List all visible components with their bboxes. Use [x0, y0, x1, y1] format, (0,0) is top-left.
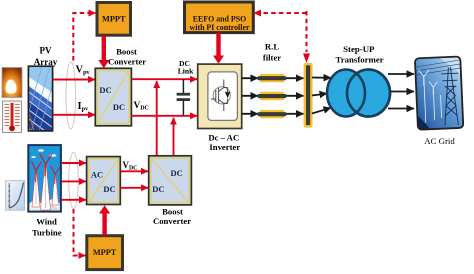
sun image — [2, 68, 22, 98]
svg-text:VDC: VDC — [134, 101, 149, 111]
svg-text:DC: DC — [113, 102, 125, 112]
svg-text:R.L: R.L — [265, 42, 279, 52]
label DC Link — [178, 59, 194, 76]
svg-text:with PI controller: with PI controller — [190, 23, 250, 32]
svg-text:DC: DC — [152, 184, 164, 194]
transformer T1 (two overlapping circles) — [327, 70, 390, 117]
wire Ipv (PV panel to boost converter) — [53, 114, 96, 116]
boost converter block (PV) DC-DC — [95, 68, 131, 126]
EEFO and PSO with PI controller block — [185, 2, 254, 33]
wire: AC-DC to wind boost (upper) — [121, 170, 149, 172]
svg-text:Turbine: Turbine — [32, 228, 62, 238]
wire: wind turbine phase a — [61, 162, 86, 164]
svg-text:AC: AC — [91, 170, 103, 180]
wire: transformer to grid phase A — [388, 73, 414, 75]
DC-AC inverter block — [198, 64, 242, 128]
svg-text:DC: DC — [99, 85, 111, 95]
svg-text:Boost: Boost — [162, 206, 183, 216]
wire: bus to transformer phase B — [312, 94, 327, 96]
wire DC+ rail (boost to inverter) — [131, 78, 197, 80]
svg-text:VDC: VDC — [123, 160, 138, 171]
svg-text:Link: Link — [178, 67, 194, 76]
capacitor: DC link — [177, 79, 191, 116]
dashed wire: wind ellipse to MPPT (wind) — [74, 209, 86, 256]
ground — [27, 199, 62, 212]
label PV Array — [34, 46, 58, 67]
turbine 1 (left) — [32, 171, 40, 207]
svg-text:Converter: Converter — [153, 216, 191, 226]
svg-text:Boost: Boost — [116, 47, 137, 57]
AC grid image — [415, 56, 464, 130]
wire Vpv (PV panel to boost converter) — [53, 79, 96, 81]
wire: inverter phase B to bus — [242, 95, 304, 97]
dashed feedback wire: AC bus to EEFO block — [254, 11, 307, 52]
svg-text:Dc – AC: Dc – AC — [208, 132, 239, 142]
node: wind measurement ellipse — [69, 153, 79, 209]
wire: bus to transformer phase C — [312, 108, 331, 114]
svg-text:Wind: Wind — [36, 217, 57, 227]
label Boost Converter (PV) — [108, 47, 146, 67]
MPPT block (PV) — [97, 3, 131, 36]
svg-text:MPPT: MPPT — [93, 248, 117, 257]
turbine 3 (right) — [52, 174, 59, 205]
IGBT symbol U1 — [211, 80, 230, 112]
svg-text:filter: filter — [263, 52, 281, 62]
label Boost Converter (wind) — [153, 206, 191, 226]
svg-text:Inverter: Inverter — [209, 142, 240, 152]
wire: transformer to grid phase B — [390, 91, 414, 93]
wire: wind turbine phase c — [61, 199, 86, 201]
svg-text:Vpv: Vpv — [76, 65, 91, 77]
turbine 2 (middle tall) — [41, 164, 51, 210]
boost converter block (wind) DC-DC — [149, 156, 192, 205]
inductor L3 (R.L filter) — [258, 110, 287, 118]
thick arrow: MPPT (wind) to AC-DC converter — [99, 205, 110, 236]
node: PV measurement ellipse — [66, 62, 76, 129]
label Dc-AC Inverter — [208, 132, 240, 152]
AC-DC converter block (wind) — [87, 157, 121, 205]
thick arrow: MPPT to boost converter (PV) — [98, 36, 109, 69]
svg-text:EEFO and PSO: EEFO and PSO — [193, 14, 247, 23]
wind power curve image — [6, 181, 25, 211]
wire: inverter phase A to bus — [242, 77, 304, 79]
wire: wind turbine phase b — [61, 180, 86, 182]
wind turbines in grid image — [418, 69, 441, 123]
MPPT block (wind) — [87, 236, 123, 270]
svg-text:Array: Array — [34, 57, 58, 67]
thermometer image — [3, 101, 22, 133]
svg-text:MPPT: MPPT — [102, 14, 126, 23]
svg-text:AC Grid: AC Grid — [424, 136, 455, 146]
svg-text:DC: DC — [103, 184, 115, 194]
svg-text:Converter: Converter — [108, 57, 146, 67]
svg-text:PV: PV — [40, 46, 52, 56]
arrowhead down onto bus — [303, 54, 310, 63]
label R.L filter — [263, 42, 281, 63]
wire: transformer to grid phase C — [388, 108, 414, 110]
wire: wind boost output to DC- rail — [173, 118, 175, 157]
AC bus bar — [304, 63, 313, 128]
wind turbine image — [27, 145, 62, 212]
label Step-UP Transformer — [335, 44, 383, 65]
svg-text:DC: DC — [170, 168, 182, 178]
svg-text:Transformer: Transformer — [335, 55, 383, 65]
wire DC- rail (boost to inverter) — [131, 115, 197, 117]
wire: inverter phase C to bus — [242, 113, 304, 115]
wire: AC-DC to wind boost (lower) — [121, 187, 149, 189]
label Wind Turbine — [32, 217, 62, 238]
svg-text:Step-UP: Step-UP — [343, 44, 375, 54]
lattice tower — [441, 67, 461, 126]
PV array image — [25, 66, 58, 139]
wire: wind boost output to DC+ rail — [156, 81, 158, 157]
svg-text:Ipv: Ipv — [78, 101, 90, 113]
wire: bus to transformer phase A — [312, 77, 331, 79]
dashed wire: ellipse to MPPT (PV) — [73, 13, 95, 61]
inductor L2 (R.L filter) — [258, 92, 287, 100]
inductor L1 (R.L filter) — [258, 74, 287, 82]
thick arrow: EEFO block to inverter — [213, 33, 224, 64]
